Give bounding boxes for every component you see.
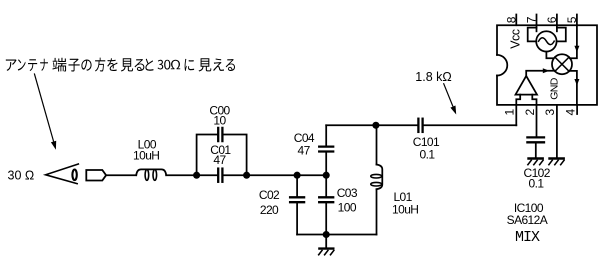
svg-text:C02: C02	[259, 188, 280, 202]
svg-text:6: 6	[545, 16, 559, 23]
svg-text:220: 220	[260, 203, 279, 217]
svg-text:MIX: MIX	[515, 229, 540, 246]
svg-text:0.1: 0.1	[529, 177, 545, 191]
svg-text:1.8 kΩ: 1.8 kΩ	[415, 70, 451, 84]
svg-text:C03: C03	[337, 186, 358, 200]
svg-text:GND: GND	[548, 77, 560, 100]
svg-text:7: 7	[525, 16, 539, 23]
svg-text:10uH: 10uH	[133, 148, 159, 162]
svg-text:8: 8	[504, 16, 518, 23]
svg-text:10uH: 10uH	[392, 203, 418, 217]
svg-text:47: 47	[213, 153, 226, 167]
svg-text:5: 5	[565, 16, 579, 23]
svg-text:30 Ω: 30 Ω	[8, 169, 35, 183]
svg-text:2: 2	[523, 109, 537, 116]
svg-text:1: 1	[503, 109, 517, 116]
svg-text:Vcc: Vcc	[509, 29, 523, 49]
svg-text:10: 10	[213, 114, 226, 128]
svg-text:0.1: 0.1	[420, 148, 436, 162]
svg-text:4: 4	[563, 109, 577, 116]
svg-text:100: 100	[338, 201, 357, 215]
svg-text:47: 47	[298, 143, 311, 157]
svg-text:3: 3	[543, 109, 557, 116]
svg-text:SA612A: SA612A	[507, 213, 548, 227]
